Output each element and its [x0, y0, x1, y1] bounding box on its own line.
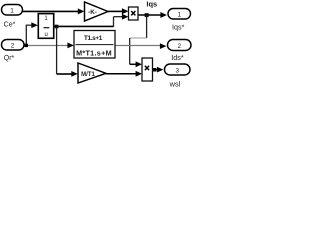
svg-text:3: 3 [176, 67, 180, 74]
svg-text:-K-: -K- [88, 9, 97, 16]
svg-text:1: 1 [178, 12, 182, 19]
svg-text:M/T1: M/T1 [81, 72, 95, 78]
svg-text:Iqs*: Iqs* [172, 22, 185, 31]
svg-text:u: u [45, 32, 48, 38]
svg-text:Iqs: Iqs [146, 0, 157, 9]
svg-text:M*T1.s+M: M*T1.s+M [76, 49, 112, 58]
svg-text:2: 2 [178, 43, 182, 50]
svg-text:2: 2 [11, 43, 15, 50]
svg-text:wsl: wsl [169, 80, 181, 89]
svg-text:Ce*: Ce* [4, 21, 16, 28]
svg-text:Qr*: Qr* [4, 55, 15, 62]
svg-text:T1.s+1: T1.s+1 [84, 35, 103, 42]
svg-text:Ids*: Ids* [171, 53, 184, 62]
svg-text:1: 1 [10, 8, 14, 15]
